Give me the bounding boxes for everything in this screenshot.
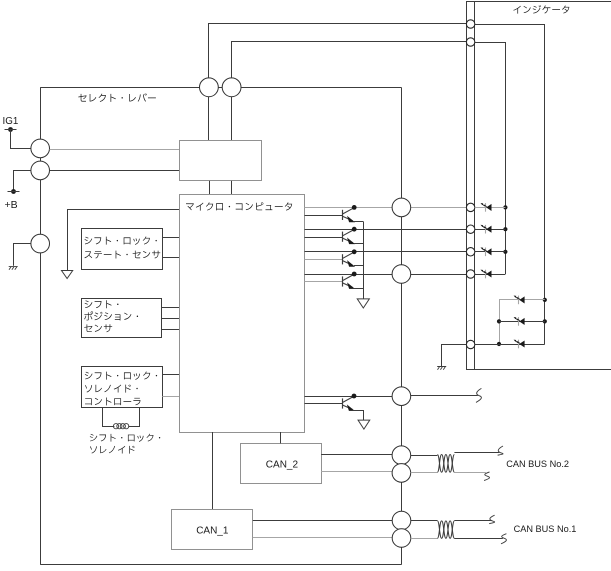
wire LED row4 [475, 274, 506, 276]
wire microcomputer ground [68, 210, 180, 271]
wire solenoid right [128, 407, 139, 426]
wire LED row group2-1 [499, 299, 545, 301]
indicator pin row4 [466, 270, 474, 278]
continuation curl CAN2 low [484, 472, 489, 481]
junction dots anode group2 [543, 298, 547, 302]
wire CAN1 low to twist [411, 538, 438, 540]
connector circle IG1 [31, 139, 50, 158]
label microcomputer [186, 202, 292, 210]
wire state sensor out2 [162, 257, 179, 259]
connector circle select 2 [222, 78, 241, 97]
wire state sensor out1 [162, 237, 179, 239]
wire connector to chassis ground [14, 244, 31, 266]
wire CAN BUS No.1 low [454, 538, 502, 540]
connector circle +B [31, 161, 50, 180]
chassis ground indicator [437, 366, 446, 369]
wire CAN BUS No.2 low [454, 472, 486, 474]
shift position sensor box [82, 299, 162, 338]
wire select1 to switch box [208, 97, 210, 141]
indicator pin row1 [466, 203, 474, 211]
wire select2 to indicator pin2 [232, 42, 467, 78]
wire CAN_1 high [253, 520, 392, 522]
connector circle select 1 [200, 78, 219, 97]
svg-text:CAN_1: CAN_1 [196, 525, 229, 536]
transistor Q4 [343, 272, 364, 289]
select lever switch box [180, 141, 262, 181]
wire +B to connector [14, 171, 31, 192]
label position sensor line1 [85, 300, 119, 308]
label state sensor line1 [85, 237, 157, 245]
label indicator [513, 5, 569, 14]
terminal +B [11, 189, 16, 194]
wire base Q1 [305, 215, 343, 217]
wire CAN BUS No.1 high [454, 520, 491, 522]
LED D3 [481, 247, 492, 256]
wire Q1 connector to pin [411, 207, 467, 209]
wire collector Q2 [305, 229, 467, 231]
continuation curl Q5 [476, 388, 481, 402]
wire Q5 output [411, 395, 478, 397]
wire controller out2 [162, 396, 179, 398]
indicator connector inner edge [474, 2, 476, 370]
transistor Q3 [343, 249, 364, 266]
wire switch box to microcomputer 1 [209, 181, 211, 195]
signal ground Q5 [358, 420, 370, 429]
wire pin power1 to group2 anodes [475, 24, 545, 26]
wire Q5 emitter down [363, 410, 365, 420]
LED D2 [481, 225, 492, 234]
anode bus group2 [544, 24, 546, 344]
wire micro to CAN_1 [212, 432, 214, 509]
wire base Q4 [305, 281, 343, 283]
continuation curl CAN1 high [489, 515, 494, 523]
wire select1 to indicator pin1 [209, 24, 467, 78]
wire select lever line [40, 87, 401, 89]
twisted pair CAN2 [437, 455, 454, 473]
LED D1 [481, 203, 492, 212]
wire IG1 to connector [11, 130, 31, 149]
label position sensor line2 [84, 311, 138, 320]
wire LED row group2-3 [475, 344, 545, 346]
label controller line3 [85, 397, 140, 405]
CAN_2 box [241, 444, 322, 484]
transistor Q2 [343, 227, 364, 244]
connector circle CAN1 high [392, 511, 411, 530]
wire collector Q5 [305, 396, 393, 398]
emitter bus [363, 222, 365, 299]
wire bottom return [40, 564, 401, 566]
anode bus group1 [505, 42, 507, 274]
wire pin ground to chassis [442, 345, 467, 367]
wire CAN_2 low [321, 471, 392, 473]
wire collector Q4 [305, 274, 393, 276]
wire position sensor out3 [162, 329, 179, 331]
transistor Q1 [343, 205, 364, 222]
svg-text:CAN BUS No.1: CAN BUS No.1 [514, 524, 577, 534]
wire LED row2 [475, 229, 506, 231]
continuation curl CAN2 high [498, 446, 503, 455]
wire +B feed to switch box [50, 170, 180, 172]
wire switch box to microcomputer 2 [231, 181, 233, 195]
wire collector Q3 [305, 251, 467, 253]
label solenoid line1 [90, 434, 160, 442]
indicator pin power1 [466, 20, 474, 28]
signal ground transistors [357, 299, 369, 308]
label select lever [78, 93, 156, 102]
cathode bus group2 [499, 300, 501, 344]
wire pin power2 to group1 anodes [475, 42, 506, 44]
wire controller out1 [162, 374, 179, 376]
wire CAN BUS No.2 high [454, 452, 499, 454]
LED D7 [514, 340, 525, 349]
left harness bus [40, 88, 42, 565]
LED D5 [514, 296, 525, 305]
solenoid coil [113, 424, 128, 429]
signal ground microcomputer [62, 271, 73, 279]
svg-text:CAN BUS No.2: CAN BUS No.2 [506, 459, 569, 469]
chassis ground left [9, 266, 18, 269]
connector circle row1 [392, 198, 411, 217]
wire LED row3 [475, 251, 506, 253]
wire base Q5 [305, 403, 343, 405]
connector circle CAN1 low [392, 529, 411, 548]
wire micro to CAN_2 [280, 432, 282, 443]
wire CAN_2 high [321, 454, 392, 456]
svg-text:CAN_2: CAN_2 [266, 460, 299, 471]
indicator pin row2 [466, 225, 474, 233]
connector circle CAN2 high [392, 446, 411, 465]
wire CAN2 low to twist [411, 472, 438, 474]
shift lock state sensor box [82, 229, 163, 270]
label solenoid line2 [90, 446, 135, 454]
wire CAN1 high to twist [411, 520, 438, 522]
wire CAN_1 low [253, 537, 392, 539]
wire collector Q1 [305, 207, 393, 209]
junction dots anode group1 [503, 205, 507, 209]
indicator box [467, 2, 611, 370]
indicator pin power2 [466, 38, 474, 46]
terminal IG1 [8, 127, 13, 132]
connector circle Q5 [392, 387, 411, 406]
svg-text:+B: +B [5, 199, 18, 211]
wire IG1 feed to switch box [50, 149, 180, 151]
indicator pin row3 [466, 248, 474, 256]
connector circle ground [31, 234, 50, 253]
wire base Q3 [305, 259, 343, 261]
twisted pair CAN1 [437, 521, 454, 538]
harness bus vertical [401, 88, 403, 565]
connector circle row4 [392, 265, 411, 284]
label controller line1 [85, 372, 157, 380]
wire base Q2 [305, 237, 343, 239]
svg-text:IG1: IG1 [3, 116, 19, 127]
continuation curl CAN1 low [501, 534, 506, 544]
junction dots cathode group2 [497, 319, 501, 323]
LED D6 [514, 317, 525, 326]
transistor Q5 [343, 394, 364, 411]
connector circle CAN2 low [392, 464, 411, 483]
label state sensor line2 [84, 251, 160, 259]
wire position sensor out1 [162, 307, 179, 309]
label position sensor line3 [84, 324, 112, 332]
indicator pin ground [466, 340, 474, 348]
CAN_1 box [172, 510, 253, 550]
wire select2 to switch box [231, 97, 233, 141]
wire Q4 connector to pin [411, 274, 467, 276]
shift lock solenoid controller box [82, 367, 163, 408]
wire LED row1 [475, 207, 506, 209]
wire LED row group2-2 [499, 321, 545, 323]
wire solenoid left [103, 407, 115, 426]
microcomputer box [180, 195, 305, 433]
wire CAN2 high to twist [411, 455, 438, 457]
label controller line2 [85, 385, 138, 393]
wire position sensor out2 [162, 318, 179, 320]
LED D4 [481, 270, 492, 279]
